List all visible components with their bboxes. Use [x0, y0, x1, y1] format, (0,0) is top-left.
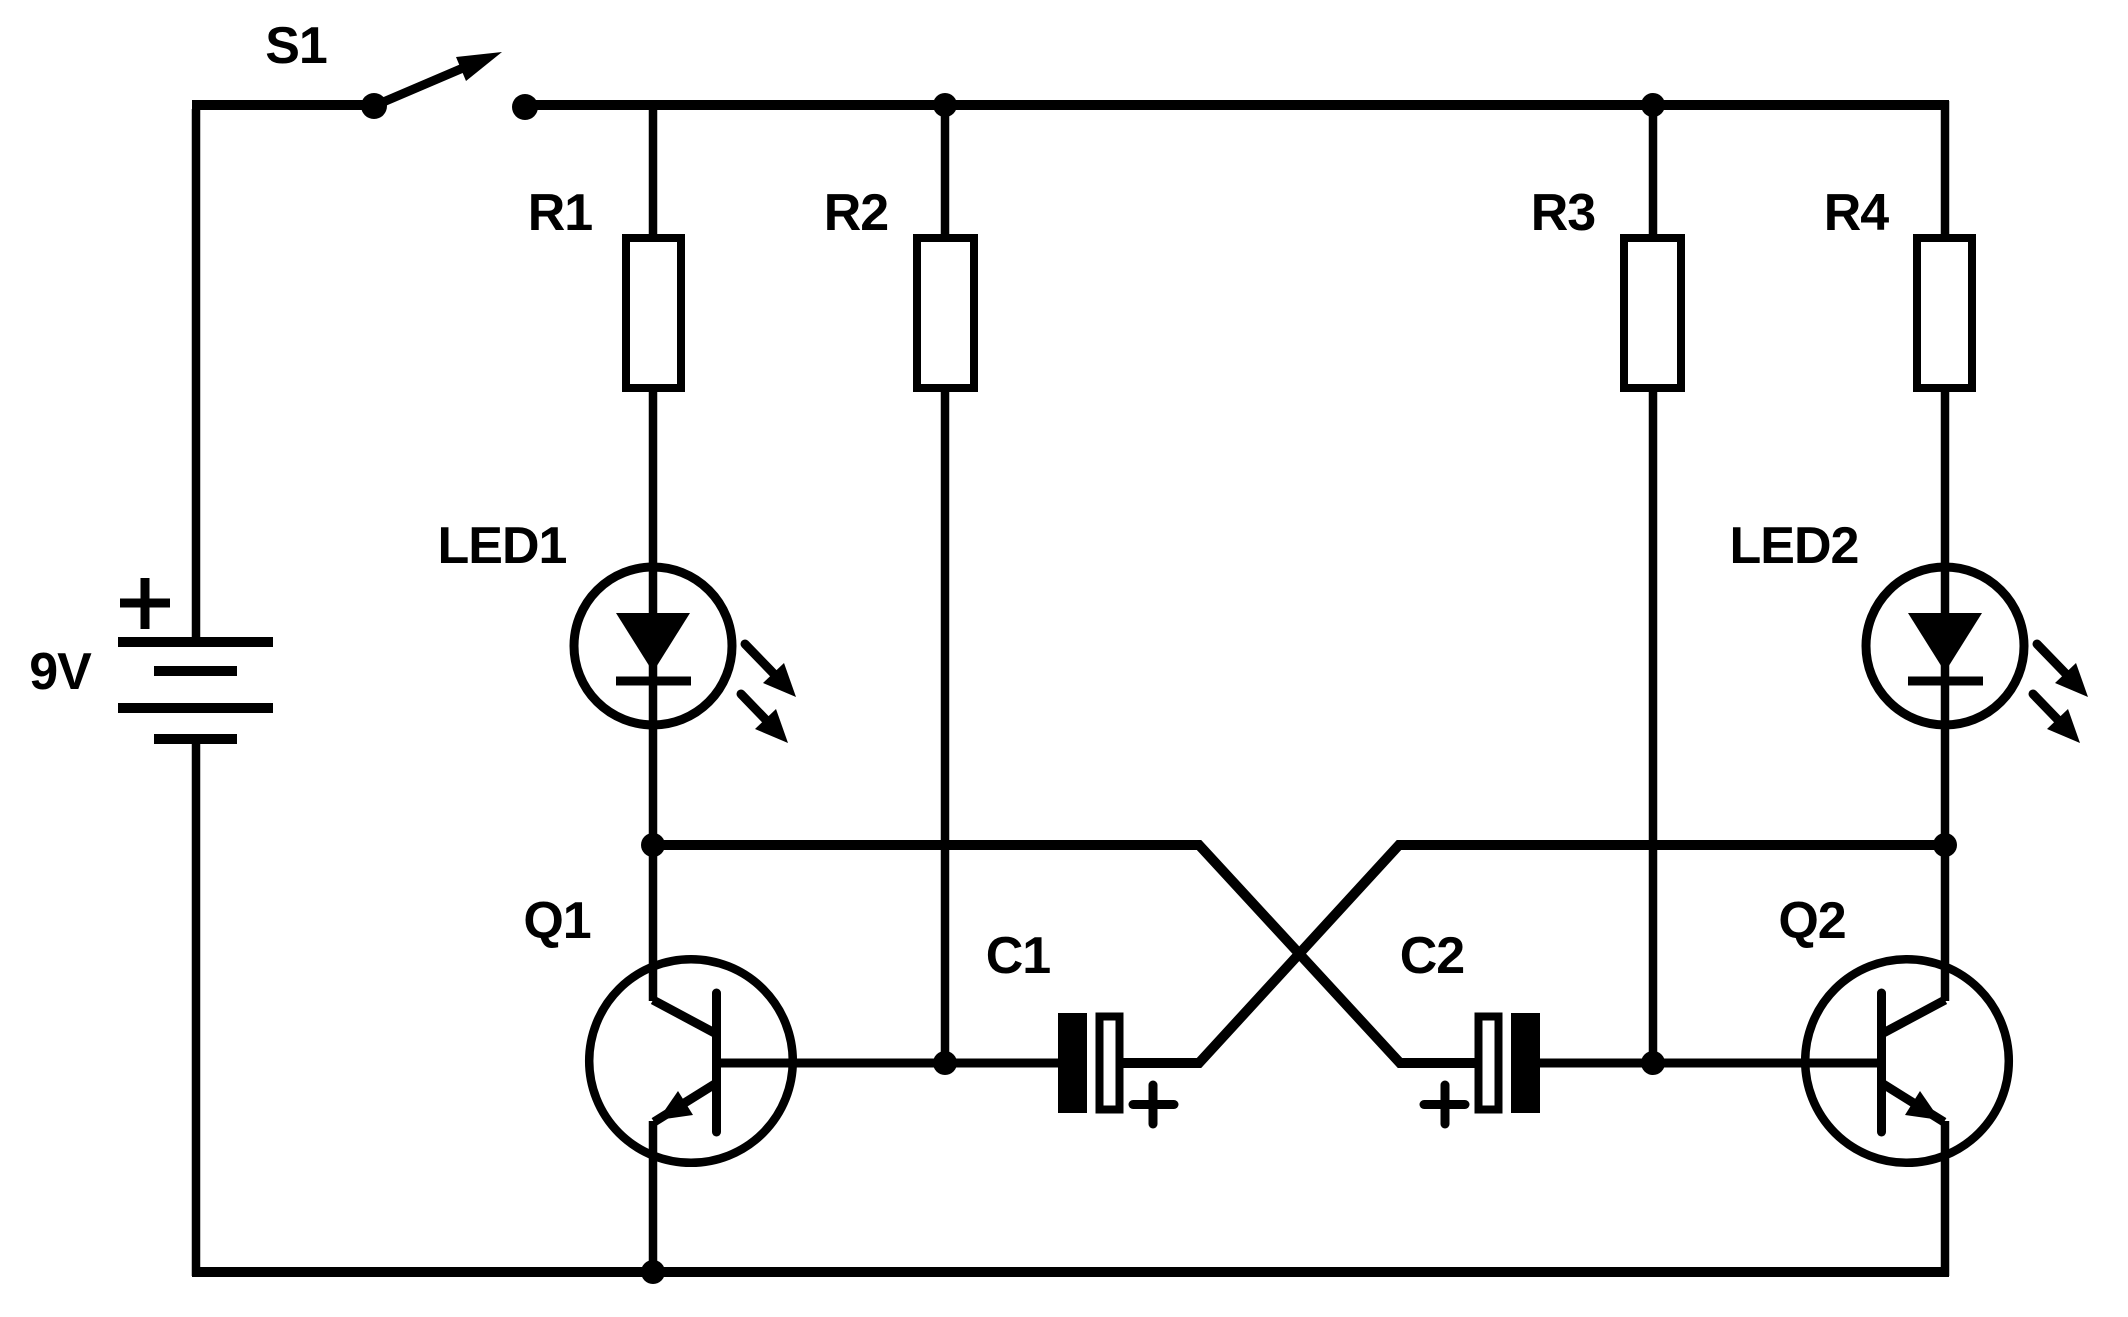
junction node: Q1 base / R2 / C1 [933, 1051, 957, 1075]
transistor Q2 [1778, 892, 2008, 1163]
svg-text:S1: S1 [265, 17, 327, 75]
wire: Q1 base lead to C1 node [717, 1059, 1059, 1068]
svg-text:R1: R1 [528, 184, 593, 242]
junction node: R2 top [933, 93, 957, 117]
svg-text:R3: R3 [1531, 184, 1596, 242]
wire: R3 top lead [1649, 105, 1658, 236]
wire: R2 top lead [941, 105, 950, 236]
wire: R2 bottom lead down to C1 node [941, 392, 950, 1063]
junction node: R3 top [1641, 93, 1665, 117]
svg-text:C2: C2 [1400, 927, 1464, 985]
LED LED2 [1730, 517, 2088, 743]
resistor R4 [1824, 184, 1972, 388]
svg-text:LED1: LED1 [438, 517, 567, 575]
wire: R3 bottom lead down to C2 node [1649, 392, 1658, 1063]
junction node: LED1 cathode / Q1 collector [641, 833, 665, 857]
junction node: Q1 emitter / ground rail [641, 1260, 665, 1284]
wire: top rail from switch right terminal to top-right corner down to R4 [524, 100, 1949, 110]
resistor R1 [528, 184, 681, 388]
wire: R4 bottom through LED2 to Q2 collector [1941, 392, 1950, 1001]
wire: Q2 emitter down to bottom rail [1941, 1121, 1950, 1276]
junction node: Q2 base / R3 / C2 [1641, 1051, 1665, 1075]
battery 9V [29, 578, 273, 739]
transistor Q1 [523, 892, 792, 1163]
capacitor C2 [1400, 927, 1540, 1124]
wire: C1 node to C1 left plate [945, 1059, 1058, 1068]
resistor R2 [824, 184, 974, 388]
wire: R1 top lead [649, 105, 658, 236]
wire: cross-coupling Q1 collector node to C2 left plate [653, 845, 1478, 1063]
svg-text:R4: R4 [1824, 184, 1890, 242]
wire: battery - down to bottom-left corner and bottom rail [192, 740, 201, 1276]
wire: C1 right plate to Q2 collector node [1123, 845, 1945, 1063]
LED LED1 [438, 517, 796, 743]
svg-text:LED2: LED2 [1730, 517, 1859, 575]
wire: Q2 base lead to C2 node [1540, 1059, 1882, 1068]
svg-text:R2: R2 [824, 184, 888, 242]
junction node: LED2 cathode / Q2 collector [1933, 833, 1957, 857]
wire: battery + up to switch left terminal [192, 109, 201, 641]
wire: R1 bottom through LED1 to Q1 collector [649, 392, 658, 1001]
capacitor C1 [986, 927, 1174, 1124]
switch S1 [265, 17, 538, 120]
svg-text:C1: C1 [986, 927, 1051, 985]
resistor R3 [1531, 184, 1681, 388]
wire: Q1 emitter down to bottom rail [649, 1121, 658, 1276]
svg-text:Q1: Q1 [523, 892, 590, 950]
svg-text:Q2: Q2 [1778, 892, 1845, 950]
svg-text:9V: 9V [29, 643, 92, 701]
